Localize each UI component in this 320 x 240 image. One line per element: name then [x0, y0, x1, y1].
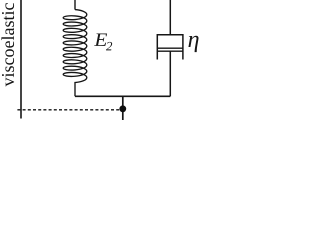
- wall boundary line: [20, 0, 22, 119]
- dashpot piston line 2: [157, 50, 183, 52]
- label eta: [188, 36, 198, 52]
- dashpot cup: [157, 35, 183, 60]
- spring E2 coil: [63, 10, 87, 97]
- junction node dot: [119, 105, 126, 112]
- dashpot top rod: [169, 0, 171, 35]
- bottom wire: [75, 95, 170, 97]
- label E2: E: [94, 33, 107, 45]
- label viscoelastic (rotated): [1, 3, 14, 86]
- dashed interface line: [17, 109, 120, 111]
- dashpot piston line 1: [157, 47, 183, 49]
- center stub: [122, 96, 124, 120]
- spring top lead: [74, 0, 76, 10]
- dashpot bottom rod: [169, 51, 171, 96]
- label E2: subscript 2: [106, 42, 112, 51]
